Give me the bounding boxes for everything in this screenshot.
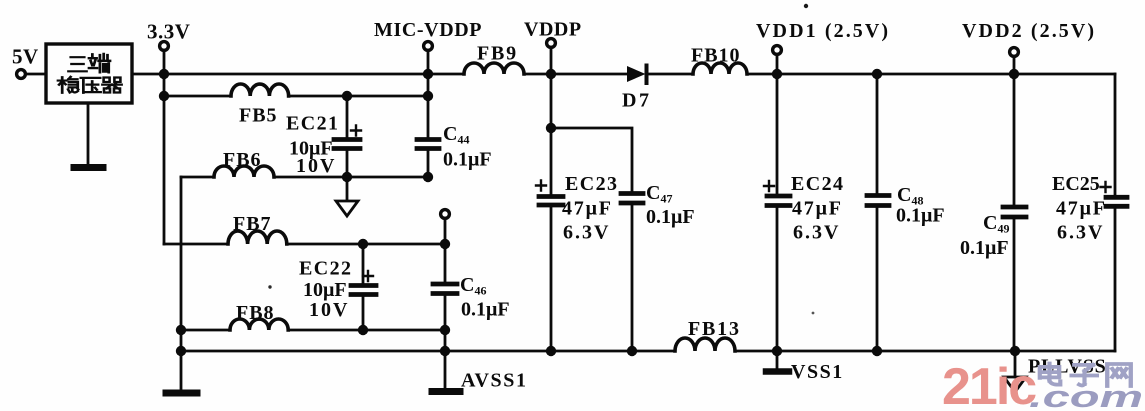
node junction EC22/FB8	[358, 325, 368, 335]
svg-text:FB5: FB5	[239, 105, 278, 127]
wire FB7 rail left	[164, 243, 228, 246]
wire FB8 rail left	[181, 329, 230, 332]
svg-text:EC21: EC21	[286, 113, 339, 135]
wire VDD1 vertical	[776, 54, 779, 194]
capacitor EC25 47uF 6.3V	[1106, 195, 1127, 200]
terminal 5V	[17, 70, 26, 79]
regulator U1 three-terminal regulator 三端稳压器	[46, 44, 132, 103]
node junction EC22 top	[358, 239, 368, 249]
svg-text:EC22: EC22	[299, 258, 352, 280]
node junction VDD1 rail	[772, 69, 782, 79]
svg-text:21ic: 21ic	[942, 358, 1036, 411]
svg-text:47μF: 47μF	[562, 198, 613, 220]
wire PLLVSS stub	[1014, 351, 1017, 377]
wire FB5 rail right	[289, 95, 428, 98]
svg-text:VSS1: VSS1	[791, 361, 844, 383]
node junction EC21/FB6	[342, 172, 352, 182]
node junction VSS1	[772, 346, 782, 356]
wire C48 bottom	[876, 208, 879, 351]
svg-text:FB10: FB10	[691, 45, 741, 67]
capacitor C44 0.1uF	[417, 137, 439, 142]
wire C47 bottom	[631, 205, 634, 351]
wire	[26, 73, 46, 76]
wire EC25 bottom	[1114, 208, 1117, 351]
node junction EC23/bottom rail	[546, 346, 556, 356]
svg-text:FB8: FB8	[236, 302, 275, 324]
node speck artifact	[804, 4, 808, 8]
node speck artifact	[812, 312, 815, 315]
inductor FB10	[693, 63, 747, 74]
node junction FB8/C46	[440, 325, 450, 335]
svg-text:FB7: FB7	[233, 213, 272, 235]
terminal MIC-VDDP	[424, 42, 433, 51]
ground analog triangle	[336, 201, 358, 216]
terminal VDD1	[773, 46, 782, 55]
svg-text:FB9: FB9	[477, 43, 518, 65]
node junction VDDP rail	[546, 69, 556, 79]
svg-text:EC25: EC25	[1052, 173, 1100, 195]
wire C46 bottom	[444, 296, 447, 388]
inductor FB9	[464, 63, 524, 74]
svg-text:D7: D7	[622, 90, 651, 112]
node junction FB8 left	[176, 325, 186, 335]
node junction FB7/C46	[440, 239, 450, 249]
node junction bottom-left	[176, 346, 186, 356]
node junction C48/bottom rail	[872, 346, 882, 356]
capacitor EC22 10uF 10V	[362, 244, 365, 283]
svg-text:AVSS1: AVSS1	[461, 370, 528, 392]
capacitor EC21 10uF 10V	[346, 96, 349, 137]
terminal VDDP	[547, 39, 556, 48]
ground bottom-left	[166, 390, 197, 397]
node junction C44 top	[423, 91, 433, 101]
wire FB7 rail right	[287, 243, 445, 246]
wire EC22 bottom	[362, 297, 365, 330]
svg-text:FB13: FB13	[688, 318, 741, 340]
wire C48 top	[876, 74, 879, 193]
svg-text:6.3V: 6.3V	[1057, 222, 1104, 244]
wire main rail right	[747, 73, 1115, 76]
terminal C46 top	[441, 210, 450, 219]
wire right edge	[1114, 74, 1117, 196]
capacitor C46 0.1uF	[433, 282, 457, 287]
capacitor C48 0.1uF	[867, 193, 889, 198]
wire VSS1 stub	[776, 351, 779, 369]
node junction C44/FB6	[423, 172, 433, 182]
inductor FB7	[228, 231, 287, 244]
wire EC23 bottom	[550, 207, 553, 351]
wire C44 bottom	[427, 151, 430, 177]
node junction C46/bottom rail	[440, 346, 450, 356]
svg-text:VDD1 (2.5V): VDD1 (2.5V)	[756, 20, 890, 42]
svg-text:6.3V: 6.3V	[563, 222, 610, 244]
svg-text:0.1μF: 0.1μF	[461, 299, 510, 321]
wire main 3.3V rail	[132, 73, 428, 76]
wire	[524, 73, 627, 76]
diode D7	[627, 66, 646, 82]
svg-text:0.1μF: 0.1μF	[646, 206, 695, 228]
wire bottom rail right	[735, 350, 1115, 353]
svg-text:0.1μF: 0.1μF	[960, 237, 1009, 259]
svg-text:3.3V: 3.3V	[147, 20, 190, 44]
svg-text:EC24: EC24	[791, 173, 844, 195]
svg-text:47μF: 47μF	[792, 198, 843, 220]
node junction C47/bottom rail	[627, 346, 637, 356]
capacitor C49 0.1uF	[1003, 205, 1026, 210]
node speck artifact	[268, 285, 271, 288]
capacitor C47 0.1uF	[621, 191, 643, 196]
wire VDD2 vertical	[1013, 56, 1016, 205]
svg-text:FB6: FB6	[223, 149, 262, 171]
wire ground vertical x181	[180, 177, 183, 390]
svg-text:47μF: 47μF	[1056, 198, 1107, 220]
wire C47 branch	[551, 128, 632, 191]
svg-text:0.1μF: 0.1μF	[896, 205, 945, 227]
svg-text:VDD2 (2.5V): VDD2 (2.5V)	[962, 20, 1096, 42]
node junction C47 branch	[546, 123, 556, 133]
wire C46 vertical	[444, 218, 447, 281]
svg-text:0.1μF: 0.1μF	[443, 149, 492, 171]
wire bottom rail left	[181, 350, 675, 353]
wire VDDP vertical	[550, 47, 553, 194]
svg-text:6.3V: 6.3V	[793, 222, 840, 244]
wire EC24 bottom	[776, 208, 779, 351]
inductor FB5	[231, 84, 289, 96]
wire	[87, 103, 90, 165]
wire FB8 rail right	[288, 329, 445, 332]
wire C49 bottom	[1013, 219, 1016, 351]
svg-text:MIC-VDDP: MIC-VDDP	[374, 19, 482, 41]
node junction EC21 top	[342, 91, 352, 101]
capacitor EC24 47uF 6.3V	[767, 194, 790, 199]
capacitor EC23 47uF 6.3V	[539, 194, 563, 199]
wire EC21 bottom	[346, 151, 349, 200]
svg-text:10V: 10V	[309, 299, 349, 321]
wire FB5 rail left	[164, 95, 231, 98]
wire FB6 rail right	[274, 176, 428, 179]
ground PLLVSS triangle	[1004, 377, 1026, 392]
ground	[74, 164, 103, 171]
wire FB9 rail	[428, 73, 464, 76]
inductor FB6	[214, 166, 274, 177]
node junction PLLVSS	[1010, 346, 1020, 356]
svg-text:10V: 10V	[296, 155, 336, 177]
wire 3.3V vertical	[163, 50, 166, 244]
terminal 3.3V	[160, 42, 169, 51]
node junction FB5 branch	[159, 91, 169, 101]
ground VSS1	[766, 368, 789, 375]
ground AVSS1	[432, 388, 460, 395]
terminal VDD2	[1010, 48, 1019, 57]
node junction MIC-VDDP rail	[423, 69, 433, 79]
svg-text:.com: .com	[1029, 379, 1143, 411]
inductor FB8	[230, 319, 288, 330]
svg-text:EC23: EC23	[565, 173, 618, 195]
watermark 21ic	[942, 358, 1143, 411]
node junction VDD2 rail	[1009, 69, 1019, 79]
svg-text:5V: 5V	[12, 45, 39, 69]
node junction C48 top	[872, 69, 882, 79]
node junction 3.3V on rail	[159, 69, 169, 79]
wire MIC-VDDP vertical / C44	[427, 50, 430, 137]
wire FB6 rail left	[181, 176, 214, 179]
inductor FB13	[675, 338, 735, 351]
wire	[648, 73, 693, 76]
svg-text:10μF: 10μF	[303, 279, 347, 301]
